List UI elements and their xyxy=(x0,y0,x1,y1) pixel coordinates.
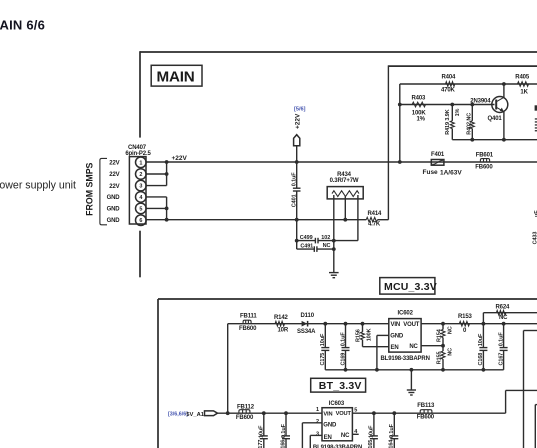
svg-text:VIN: VIN xyxy=(391,322,401,328)
svg-text:6: 6 xyxy=(139,218,142,224)
svg-text:D110: D110 xyxy=(301,313,315,319)
svg-text:R155: R155 xyxy=(437,352,443,365)
svg-text:R419 3.9K: R419 3.9K xyxy=(445,109,451,135)
svg-text:1: 1 xyxy=(316,407,319,413)
svg-text:1%: 1% xyxy=(417,116,426,122)
svg-text:NC: NC xyxy=(447,348,453,356)
svg-text:GND: GND xyxy=(323,422,337,428)
svg-text:IC603: IC603 xyxy=(329,401,345,407)
svg-text:FB600: FB600 xyxy=(417,415,435,421)
svg-text:BL9198-33BAPRN: BL9198-33BAPRN xyxy=(381,356,430,362)
svg-text:10uF: 10uF xyxy=(478,333,484,346)
svg-text:R403: R403 xyxy=(412,96,427,102)
svg-text:VIN: VIN xyxy=(323,412,332,418)
svg-text:C165: C165 xyxy=(368,440,374,448)
svg-text:22V: 22V xyxy=(109,161,119,167)
svg-text:10R: 10R xyxy=(278,327,289,333)
svg-text:C168: C168 xyxy=(478,353,484,366)
svg-text:EN: EN xyxy=(391,345,399,351)
svg-text:10uF: 10uF xyxy=(320,333,326,346)
svg-text:SS34A: SS34A xyxy=(297,329,316,335)
svg-text:5V_A1: 5V_A1 xyxy=(186,412,205,418)
svg-text:[5/6]: [5/6] xyxy=(294,106,306,112)
svg-text:MAIN: MAIN xyxy=(157,68,195,85)
svg-text:+22V: +22V xyxy=(172,155,188,162)
svg-text:[3/6,6/6]: [3/6,6/6] xyxy=(168,412,188,418)
svg-text:R402 NC: R402 NC xyxy=(467,113,473,135)
svg-text:1: 1 xyxy=(139,160,142,166)
svg-text:FB113: FB113 xyxy=(417,403,435,409)
svg-text:10uF: 10uF xyxy=(259,425,265,438)
svg-text:R405: R405 xyxy=(515,74,530,80)
svg-text:power supply unit: power supply unit xyxy=(0,179,76,191)
svg-text:C164: C164 xyxy=(388,439,394,448)
svg-text:1%: 1% xyxy=(455,108,461,116)
svg-text:1K: 1K xyxy=(520,90,528,96)
svg-text:C499: C499 xyxy=(300,235,313,241)
svg-text:NC: NC xyxy=(499,315,508,321)
svg-text:NC: NC xyxy=(323,243,331,249)
svg-text:100K: 100K xyxy=(366,328,372,341)
svg-text:BT_3.3V: BT_3.3V xyxy=(319,380,362,392)
svg-text:R153: R153 xyxy=(458,314,473,320)
svg-text:C169: C169 xyxy=(340,353,346,366)
svg-text:C401: C401 xyxy=(292,194,298,207)
svg-text:R156: R156 xyxy=(355,329,361,342)
svg-text:4: 4 xyxy=(139,195,143,201)
svg-text:0.1uF: 0.1uF xyxy=(292,172,298,187)
svg-text:Q401: Q401 xyxy=(488,116,503,122)
svg-text:FB111: FB111 xyxy=(240,314,257,320)
svg-text:C177: C177 xyxy=(258,440,264,448)
svg-text:FROM SMPS: FROM SMPS xyxy=(85,162,95,215)
svg-text:0.1uF: 0.1uF xyxy=(340,332,346,347)
svg-text:CN407: CN407 xyxy=(128,145,147,151)
svg-text:C167: C167 xyxy=(498,353,504,366)
svg-text:VOUT: VOUT xyxy=(336,411,352,417)
svg-text:0: 0 xyxy=(463,328,467,334)
svg-text:R154: R154 xyxy=(437,328,443,342)
svg-text:R142: R142 xyxy=(274,315,289,321)
svg-text:VOUT: VOUT xyxy=(403,322,420,328)
svg-text:Fuse: Fuse xyxy=(423,169,439,176)
svg-text:C166: C166 xyxy=(280,440,286,448)
svg-text:0.1uF: 0.1uF xyxy=(389,423,395,438)
svg-text:0.3R/7+7W: 0.3R/7+7W xyxy=(330,178,359,184)
svg-text:GND: GND xyxy=(107,207,121,213)
svg-text:2: 2 xyxy=(139,172,142,178)
svg-text:C491: C491 xyxy=(300,243,313,249)
svg-text:4.7K: 4.7K xyxy=(368,222,381,228)
svg-text:0.1uF: 0.1uF xyxy=(281,423,287,438)
svg-text:NC: NC xyxy=(447,326,453,334)
svg-text:NC: NC xyxy=(341,433,350,439)
svg-text:10uF: 10uF xyxy=(369,425,375,438)
svg-text:IC602: IC602 xyxy=(398,310,414,316)
svg-text:0.1uF: 0.1uF xyxy=(498,332,504,347)
svg-text:5: 5 xyxy=(139,206,142,212)
svg-text:1A/63V: 1A/63V xyxy=(440,169,462,176)
svg-text:NC: NC xyxy=(409,344,418,350)
svg-text:FB600: FB600 xyxy=(475,165,493,171)
svg-text:22V: 22V xyxy=(109,184,119,190)
svg-text:MAIN 6/6: MAIN 6/6 xyxy=(0,18,45,33)
svg-text:GND: GND xyxy=(107,218,121,224)
svg-text:3: 3 xyxy=(316,431,319,437)
svg-text:470K: 470K xyxy=(441,87,456,93)
svg-text:EN: EN xyxy=(324,435,332,441)
svg-text:+22V: +22V xyxy=(294,113,301,129)
svg-text:MCU_3.3V: MCU_3.3V xyxy=(384,281,437,293)
svg-text:3: 3 xyxy=(139,184,142,190)
svg-text:R624: R624 xyxy=(496,305,511,311)
svg-text:C175: C175 xyxy=(320,353,326,366)
svg-text:F401: F401 xyxy=(431,152,445,158)
svg-text:FB601: FB601 xyxy=(476,153,494,159)
svg-text:FB600: FB600 xyxy=(236,415,254,421)
svg-text:102: 102 xyxy=(321,235,330,241)
svg-text:FB600: FB600 xyxy=(239,326,257,332)
svg-text:C433: C433 xyxy=(533,232,537,245)
svg-text:22V: 22V xyxy=(109,172,119,178)
svg-text:GND: GND xyxy=(107,195,121,201)
svg-text:GND: GND xyxy=(390,334,404,340)
svg-text:R404: R404 xyxy=(442,74,457,80)
